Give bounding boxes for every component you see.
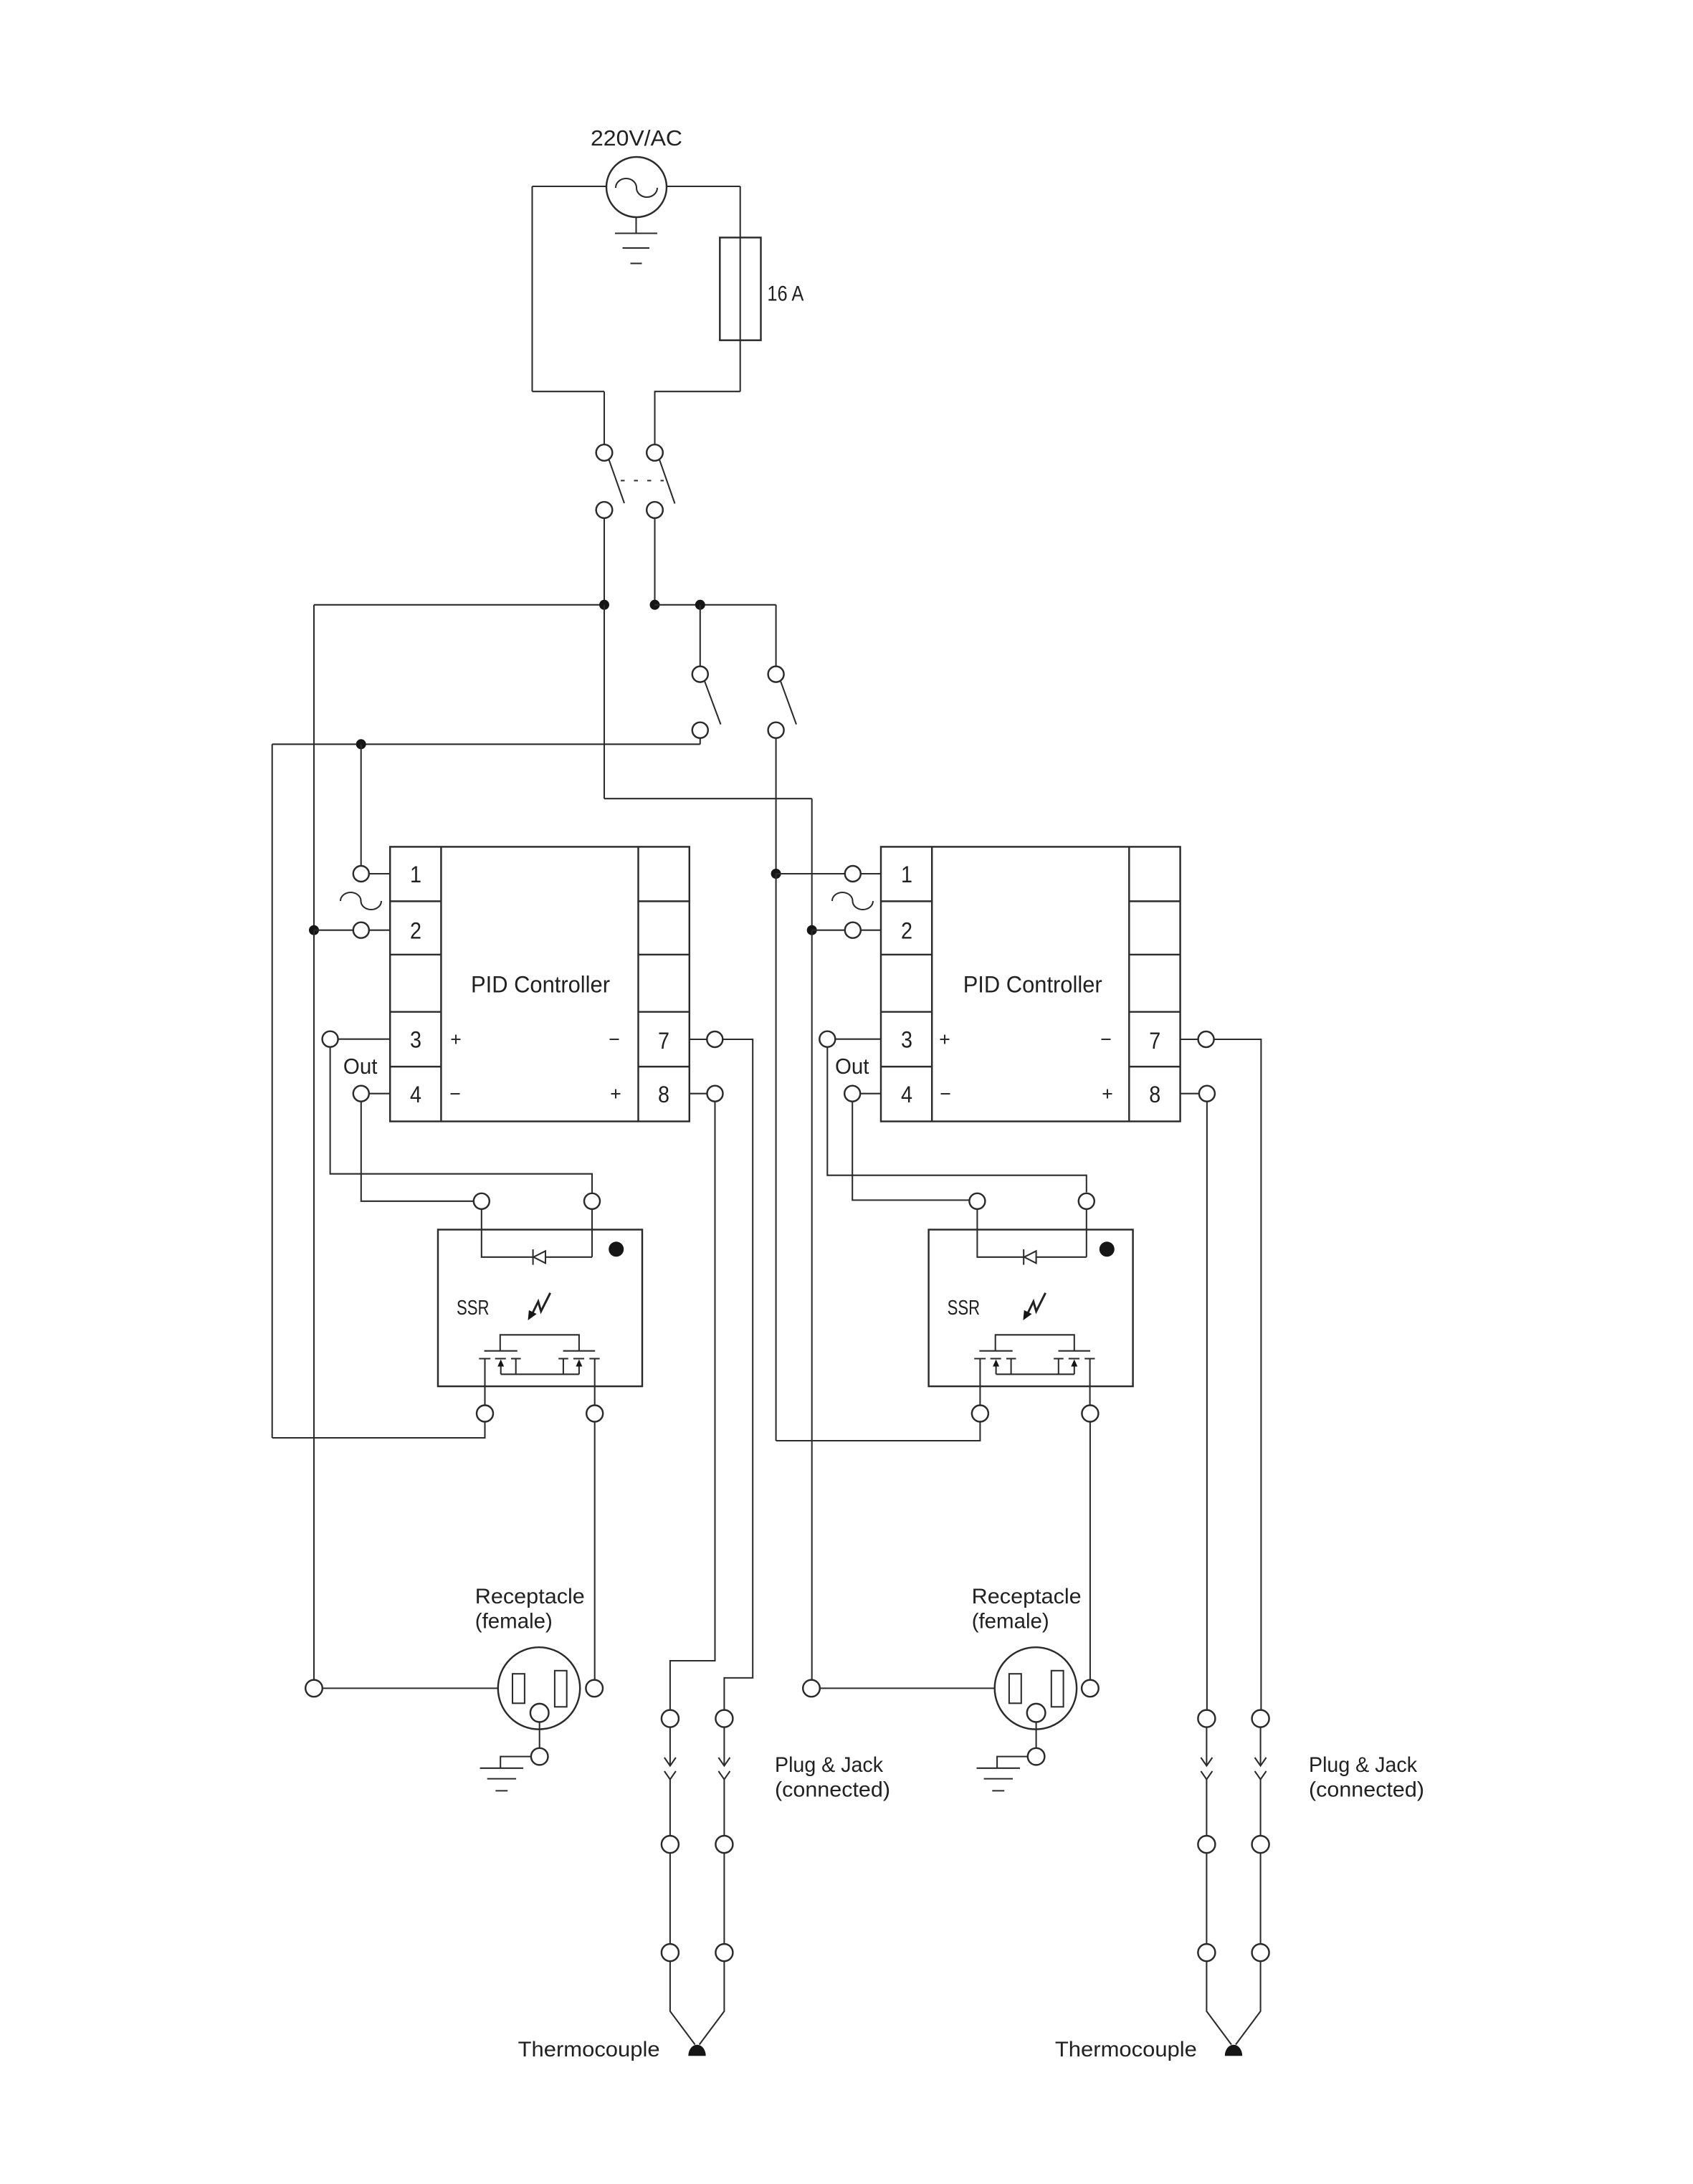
wire bbox=[776, 873, 845, 874]
wire bbox=[482, 1209, 533, 1257]
wire bbox=[669, 1780, 671, 1836]
wire bbox=[1260, 1780, 1262, 1836]
wire bbox=[1260, 1853, 1262, 1944]
J1 left terminal bbox=[305, 1680, 323, 1697]
wire bbox=[723, 1727, 725, 1766]
U1 pin 2 label bbox=[410, 918, 421, 944]
wire U1 pin8 down bbox=[670, 1102, 715, 1710]
SSR1 indicator dot bbox=[609, 1241, 624, 1256]
wire bbox=[654, 391, 740, 392]
svg-text:220V/AC: 220V/AC bbox=[591, 125, 682, 151]
P1 lead joint R bbox=[715, 1944, 733, 1961]
wire bbox=[1206, 1853, 1207, 1944]
wire bbox=[669, 1853, 671, 1944]
label J1 Receptacle bbox=[475, 1585, 585, 1634]
J1 body bbox=[498, 1647, 580, 1729]
J1 right terminal bbox=[586, 1680, 603, 1697]
switch S1 pole A top terminal bbox=[596, 444, 613, 461]
U1 pin 3 label bbox=[410, 1027, 421, 1053]
U2 pin 8 label bbox=[1149, 1082, 1160, 1107]
wire bbox=[1036, 1722, 1037, 1748]
svg-text:(female): (female) bbox=[475, 1610, 553, 1634]
U1 terminal 7 bbox=[690, 1031, 723, 1047]
ground (J1) bbox=[480, 1757, 531, 1791]
SSR2 output terminal right bbox=[1082, 1406, 1098, 1422]
SSR2 input terminal - bbox=[1079, 1193, 1095, 1209]
wire bbox=[604, 391, 605, 444]
switch S1 pole B blade bbox=[659, 459, 675, 503]
wire bbox=[604, 518, 605, 605]
svg-text:2: 2 bbox=[901, 918, 912, 944]
SSR2 MOSFET pair Q bbox=[974, 1335, 1095, 1405]
svg-text:1: 1 bbox=[410, 862, 421, 887]
svg-text:8: 8 bbox=[1149, 1082, 1160, 1107]
P2 lead joint L bbox=[1198, 1944, 1215, 1961]
label TC1 Thermocouple bbox=[518, 2038, 660, 2061]
U1 terminal 8 bbox=[690, 1086, 723, 1102]
wire bus channel-1 bbox=[272, 743, 700, 745]
wire bbox=[1036, 1209, 1087, 1257]
wire U1 pin4 to SSR1 bbox=[361, 1102, 474, 1201]
wire SSR1 return bbox=[272, 1422, 485, 1439]
SSR2 output terminal left bbox=[972, 1406, 988, 1422]
P1 plug pin L bbox=[662, 1710, 679, 1727]
U1 minus mark pin7 bbox=[610, 1039, 619, 1040]
U1 pin 1 label bbox=[410, 862, 421, 887]
U2 minus mark pin7 bbox=[1102, 1039, 1111, 1040]
J1 ground terminal bbox=[531, 1748, 548, 1765]
wire bbox=[811, 930, 813, 1680]
wire bbox=[314, 930, 353, 931]
switch S2a top terminal bbox=[692, 667, 708, 682]
U2 minus mark pin4 bbox=[941, 1093, 950, 1095]
svg-text:PID Controller: PID Controller bbox=[471, 972, 610, 998]
junction pin1 feed PID2 bbox=[771, 869, 781, 879]
U2 AC supply tilde bbox=[832, 892, 873, 910]
ground (J2) bbox=[977, 1757, 1028, 1791]
wire bbox=[812, 930, 845, 931]
wire bbox=[977, 1209, 1024, 1257]
label U1 PID Controller bbox=[471, 972, 610, 998]
switch S1 mechanical link bbox=[621, 480, 664, 481]
svg-text:3: 3 bbox=[901, 1027, 912, 1053]
svg-text:2: 2 bbox=[410, 918, 421, 944]
wire bbox=[776, 874, 777, 1441]
wire U2 pin4 to SSR2 bbox=[852, 1102, 969, 1201]
svg-text:(connected): (connected) bbox=[1309, 1778, 1424, 1802]
U1 terminal 3 bbox=[323, 1031, 391, 1047]
wire net-B bus bbox=[655, 604, 776, 606]
svg-text:4: 4 bbox=[410, 1082, 421, 1107]
svg-text:Plug & Jack: Plug & Jack bbox=[775, 1753, 884, 1777]
svg-text:SSR: SSR bbox=[457, 1297, 490, 1320]
ground (AC source) bbox=[615, 217, 657, 264]
U2 terminal 2 bbox=[845, 922, 881, 938]
svg-text:Receptacle: Receptacle bbox=[972, 1585, 1082, 1608]
wire bbox=[776, 605, 777, 667]
switch S1 pole A blade bbox=[609, 459, 625, 503]
switch S2b top terminal bbox=[768, 667, 784, 682]
switch S1 pole B bottom terminal bbox=[647, 502, 663, 518]
svg-text:Plug & Jack: Plug & Jack bbox=[1309, 1753, 1418, 1777]
switch S2b bottom terminal bbox=[768, 723, 784, 738]
P2 jack sleeve L bbox=[1198, 1836, 1215, 1853]
wire bbox=[700, 605, 701, 667]
wire bbox=[723, 1853, 725, 1944]
P1 jack sleeve L bbox=[662, 1836, 679, 1853]
P2 jack chevron R bbox=[1255, 1771, 1267, 1780]
SSR1 LED diode bbox=[533, 1249, 545, 1265]
P2 jack chevron L bbox=[1201, 1771, 1212, 1780]
svg-text:Out: Out bbox=[835, 1054, 869, 1079]
PID controller U1 box bbox=[390, 847, 690, 1121]
label SSR2 SSR bbox=[948, 1297, 981, 1320]
P1 jack chevron L bbox=[664, 1771, 676, 1780]
wire bbox=[539, 1722, 540, 1748]
junction pin1 feed PID1 bbox=[356, 739, 366, 749]
P1 jack chevron R bbox=[718, 1771, 730, 1780]
label U1 Out bbox=[343, 1054, 378, 1079]
P2 lead joint R bbox=[1252, 1944, 1269, 1961]
wire bbox=[723, 1780, 725, 1836]
switch S2a blade bbox=[705, 681, 721, 724]
J1 slot N bbox=[555, 1671, 567, 1707]
svg-text:Thermocouple: Thermocouple bbox=[518, 2038, 660, 2061]
U1 terminal 1 bbox=[353, 866, 390, 882]
wire bbox=[654, 518, 655, 605]
U2 terminal 7 bbox=[1181, 1031, 1214, 1047]
SSR2 box bbox=[929, 1230, 1133, 1387]
P2 plug pin R bbox=[1252, 1710, 1269, 1727]
U2 pin 7 label bbox=[1149, 1028, 1160, 1054]
J1 ground hole bbox=[530, 1704, 549, 1722]
U2 pin 4 label bbox=[901, 1082, 912, 1107]
wire bbox=[545, 1209, 592, 1257]
U2 terminal 8 bbox=[1181, 1086, 1215, 1102]
U2 plus mark pin8 bbox=[1103, 1089, 1112, 1099]
U1 pin 7 label bbox=[658, 1028, 669, 1054]
SSR1 box bbox=[438, 1230, 642, 1387]
svg-text:3: 3 bbox=[410, 1027, 421, 1053]
SSR1 opto light arrow bbox=[528, 1293, 550, 1320]
thermocouple TC2 junction bbox=[1225, 2045, 1242, 2056]
wire bbox=[604, 605, 605, 798]
switch S2b blade bbox=[781, 681, 796, 724]
wire bbox=[1206, 1961, 1260, 2044]
wire bbox=[361, 744, 362, 866]
U2 pin 3 label bbox=[901, 1027, 912, 1053]
U2 plus mark pin3 bbox=[940, 1035, 950, 1044]
label U2 Out bbox=[835, 1054, 869, 1079]
U1 minus mark pin4 bbox=[451, 1093, 460, 1095]
P2 plug pin L bbox=[1198, 1710, 1215, 1727]
U1 terminal 4 bbox=[353, 1086, 390, 1102]
wire bbox=[313, 605, 315, 930]
wire SSR1 to receptacle bbox=[594, 1422, 596, 1680]
U1 pin 8 label bbox=[658, 1082, 669, 1107]
label SSR1 SSR bbox=[457, 1297, 490, 1320]
wire SSR2 to receptacle bbox=[1089, 1422, 1091, 1680]
wire bbox=[776, 738, 777, 874]
U1 plus mark pin3 bbox=[452, 1035, 461, 1044]
U2 pin 2 label bbox=[901, 918, 912, 944]
SSR1 output terminal right bbox=[586, 1406, 603, 1422]
svg-text:Receptacle: Receptacle bbox=[475, 1585, 585, 1608]
SSR1 input terminal + bbox=[474, 1193, 490, 1209]
svg-text:PID Controller: PID Controller bbox=[963, 972, 1102, 998]
label P1 Plug & Jack bbox=[775, 1753, 890, 1802]
switch S1 pole B top terminal bbox=[647, 444, 663, 461]
wire bbox=[700, 738, 701, 745]
svg-text:8: 8 bbox=[658, 1082, 669, 1107]
P1 jack sleeve R bbox=[715, 1836, 733, 1853]
svg-text:4: 4 bbox=[901, 1082, 912, 1107]
SSR2 opto light arrow bbox=[1023, 1293, 1045, 1320]
wire bbox=[740, 186, 741, 391]
U1 plus mark pin8 bbox=[611, 1089, 621, 1099]
P1 plug arrow L bbox=[664, 1758, 676, 1766]
wire U2 pin7 right bbox=[1214, 1039, 1262, 1710]
wire bbox=[670, 1961, 725, 2044]
svg-text:7: 7 bbox=[1149, 1028, 1160, 1054]
wire SSR2 return bbox=[776, 1422, 981, 1441]
SSR1 input terminal - bbox=[584, 1193, 600, 1209]
U1 AC supply tilde bbox=[340, 892, 381, 910]
switch S2a bottom terminal bbox=[692, 723, 708, 738]
svg-text:SSR: SSR bbox=[948, 1297, 981, 1320]
label J2 Receptacle bbox=[972, 1585, 1082, 1634]
SSR1 output terminal left bbox=[477, 1406, 493, 1422]
label TC2 Thermocouple bbox=[1055, 2038, 1197, 2061]
U2 terminal 3 bbox=[819, 1031, 881, 1047]
junction pin2 feed PID1 bbox=[309, 925, 319, 935]
label 220V/AC bbox=[591, 125, 682, 151]
wire bbox=[669, 1727, 671, 1766]
svg-text:Thermocouple: Thermocouple bbox=[1055, 2038, 1197, 2061]
P1 plug pin R bbox=[715, 1710, 733, 1727]
U2 pin 1 label bbox=[901, 862, 912, 887]
J2 left terminal bbox=[803, 1680, 820, 1697]
junction net-B bbox=[650, 600, 660, 610]
label P2 Plug & Jack bbox=[1309, 1753, 1424, 1802]
junction pin2 feed PID2 bbox=[807, 925, 817, 935]
switch S1 pole A bottom terminal bbox=[596, 502, 613, 518]
J2 ground terminal bbox=[1028, 1748, 1045, 1765]
wire bbox=[531, 186, 533, 391]
P1 plug arrow R bbox=[718, 1758, 730, 1766]
P2 jack sleeve R bbox=[1252, 1836, 1269, 1853]
wire bbox=[323, 1687, 498, 1689]
svg-text:Out: Out bbox=[343, 1054, 378, 1079]
wire U1 pin3 to SSR1 bbox=[330, 1047, 592, 1193]
U2 terminal 1 bbox=[845, 866, 881, 882]
svg-text:1: 1 bbox=[901, 862, 912, 887]
J2 body bbox=[995, 1647, 1077, 1729]
P1 lead joint L bbox=[662, 1944, 679, 1961]
U1 terminal 2 bbox=[353, 922, 390, 938]
thermocouple TC1 junction bbox=[688, 2045, 705, 2056]
U1 pin 4 label bbox=[410, 1082, 421, 1107]
wire bbox=[313, 930, 315, 1680]
wire bbox=[533, 186, 607, 187]
J2 slot N bbox=[1051, 1671, 1064, 1707]
wire bbox=[272, 744, 273, 1438]
label 16 A bbox=[767, 282, 803, 306]
SSR2 indicator dot bbox=[1100, 1241, 1115, 1256]
PID controller U2 box bbox=[881, 847, 1181, 1121]
P2 plug arrow R bbox=[1255, 1758, 1267, 1766]
svg-text:(connected): (connected) bbox=[775, 1778, 890, 1802]
wire bbox=[667, 186, 740, 187]
svg-text:16 A: 16 A bbox=[767, 282, 803, 306]
SSR1 MOSFET pair Q bbox=[479, 1335, 599, 1405]
fuse F1 bbox=[720, 237, 760, 340]
SSR2 input terminal + bbox=[969, 1193, 985, 1209]
wire U2 pin8 down bbox=[1206, 1102, 1208, 1710]
wire bbox=[533, 391, 605, 392]
wire bbox=[1206, 1727, 1207, 1766]
J2 slot L bbox=[1009, 1674, 1021, 1703]
J2 ground hole bbox=[1027, 1704, 1046, 1722]
junction net-B switch feed bbox=[695, 600, 705, 610]
wire bbox=[604, 798, 812, 799]
wire net-A bus bbox=[314, 604, 604, 606]
wire U1 pin7 right bbox=[722, 1039, 753, 1710]
svg-text:(female): (female) bbox=[972, 1610, 1049, 1634]
SSR2 LED diode bbox=[1024, 1249, 1036, 1265]
P2 plug arrow L bbox=[1201, 1758, 1212, 1766]
wire bbox=[820, 1687, 995, 1689]
label U2 PID Controller bbox=[963, 972, 1102, 998]
wire bbox=[1206, 1780, 1207, 1836]
wire bbox=[654, 391, 655, 444]
J1 slot L bbox=[512, 1674, 525, 1703]
U2 terminal 4 bbox=[844, 1086, 881, 1102]
J2 right terminal bbox=[1082, 1680, 1099, 1697]
wire bbox=[811, 798, 813, 930]
junction net-A bbox=[599, 600, 609, 610]
wire bbox=[1260, 1727, 1262, 1766]
wire U2 pin3 to SSR2 bbox=[827, 1047, 1087, 1193]
svg-text:7: 7 bbox=[658, 1028, 669, 1054]
AC source V1 bbox=[606, 157, 667, 217]
